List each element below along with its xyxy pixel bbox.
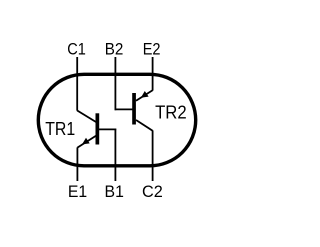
- wire TR2 collector diagonal: [136, 120, 153, 131]
- svg-text:C2: C2: [142, 182, 163, 201]
- wire TR2 base horizontal: [115, 108, 133, 110]
- transistor TR2 emitter arrow (PNP): [141, 91, 149, 98]
- wire TR1 collector diagonal: [77, 111, 96, 123]
- svg-text:B1: B1: [105, 182, 124, 201]
- svg-text:TR2: TR2: [155, 103, 187, 123]
- transistor TR1 emitter arrow (NPN): [82, 138, 90, 145]
- svg-text:E2: E2: [143, 41, 161, 59]
- wire E2 stub: [152, 57, 154, 91]
- wire B1 stub: [114, 129, 116, 181]
- svg-text:C1: C1: [67, 41, 86, 59]
- wire TR1 base horizontal: [99, 128, 116, 130]
- wire TR1 emitter diagonal: [77, 136, 96, 148]
- transistor TR1 base bar: [96, 113, 100, 144]
- wire B2 stub: [114, 57, 116, 110]
- wire E1 stub: [76, 147, 78, 181]
- package outline (stadium shape): [38, 74, 195, 166]
- svg-text:E1: E1: [68, 182, 87, 201]
- wire TR2 emitter diagonal: [136, 90, 153, 101]
- wire C1 stub: [76, 57, 78, 111]
- transistor TR2 base bar: [132, 93, 136, 125]
- svg-text:B2: B2: [105, 41, 124, 59]
- wire C2 stub: [152, 130, 154, 181]
- svg-text:TR1: TR1: [45, 119, 75, 139]
